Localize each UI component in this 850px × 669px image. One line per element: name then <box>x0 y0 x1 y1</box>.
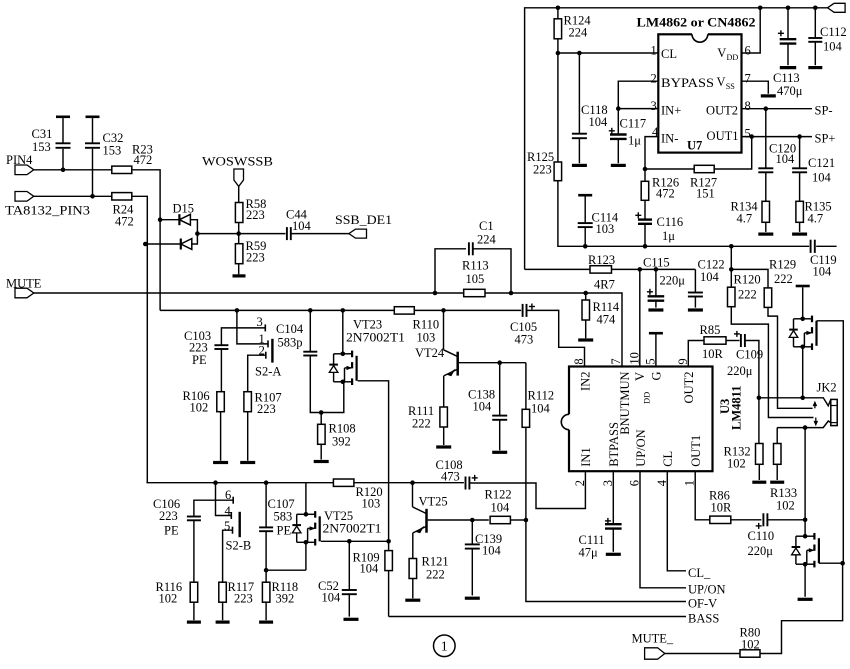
wire BASS line <box>389 616 686 618</box>
wire C106 to R116 <box>193 520 195 582</box>
svg-text:473: 473 <box>515 333 534 347</box>
svg-text:473: 473 <box>441 470 460 484</box>
bar above upper mosfet <box>796 285 810 288</box>
ground below R135 <box>792 233 807 236</box>
wire R120 to jack contact2 arrow <box>731 307 813 418</box>
capacitor C44 <box>286 231 293 236</box>
wire C118 stub <box>578 138 580 163</box>
wire R117 to ground <box>222 602 224 620</box>
wire R118 to ground <box>265 602 267 620</box>
wire R125 to bottom rail <box>558 181 837 247</box>
wire jack contact 2 <box>777 421 831 428</box>
svg-text:2: 2 <box>651 72 657 86</box>
capacitor C107 plates <box>259 526 273 528</box>
ground below C113 <box>780 66 796 69</box>
node C115 tap <box>654 267 659 272</box>
svg-text:R123: R123 <box>588 253 615 267</box>
wire R111 to ground <box>443 427 445 445</box>
wire R121 to ground <box>412 579 414 599</box>
node C110/mosfet <box>803 518 808 523</box>
node contact2/mosfet drain <box>803 425 808 430</box>
svg-text:104: 104 <box>473 400 493 414</box>
ground below R132 <box>752 481 766 484</box>
node PIN4/C31 junction <box>61 168 66 173</box>
wire D15b anode to common <box>192 234 198 244</box>
wire U3 pin10 VDD <box>639 269 641 366</box>
svg-text:104: 104 <box>776 152 796 166</box>
resistor R118 <box>262 582 270 602</box>
svg-text:3: 3 <box>651 99 657 113</box>
op-amp U7 body <box>658 33 741 153</box>
node S2-B pin4 tap <box>213 480 218 485</box>
wire R24 down to S2-B rail <box>132 196 148 482</box>
node contact1/mosfet source <box>800 396 805 401</box>
resistor R110 <box>394 307 414 314</box>
svg-text:153: 153 <box>103 144 122 158</box>
node D15a on R23 line <box>158 217 163 222</box>
resistor R126 <box>641 181 649 200</box>
wire lower mosfet source <box>804 564 806 597</box>
svg-text:6: 6 <box>225 488 231 502</box>
svg-text:OUT1: OUT1 <box>707 129 739 143</box>
capacitor C108 plus <box>472 477 478 479</box>
wire R129 to jack contact1 arrow <box>768 307 813 408</box>
capacitor C104 plates <box>303 351 317 353</box>
wire lower rail <box>146 482 464 484</box>
wire VT23 drain <box>342 310 344 353</box>
connector MUTE <box>15 288 34 298</box>
switch S2-A pin2 contact <box>265 352 267 359</box>
capacitor C32 top bar <box>86 116 100 119</box>
svg-text:C121: C121 <box>808 156 835 170</box>
wire R112 to OF-V line <box>526 427 686 601</box>
wire VT24 collector <box>443 310 445 349</box>
capacitor C32 plates <box>85 142 100 144</box>
capacitor C32 <box>92 118 94 196</box>
svg-text:MUTE_: MUTE_ <box>632 632 674 646</box>
transistor VT23 2N7002T1 <box>329 351 356 385</box>
svg-text:47μ: 47μ <box>579 546 599 560</box>
svg-text:BASS: BASS <box>688 612 719 626</box>
node C107/R118/VT25 source <box>264 568 269 573</box>
svg-text:10R: 10R <box>711 501 733 515</box>
svg-text:4R7: 4R7 <box>594 278 615 292</box>
node C52 tap <box>347 539 352 544</box>
svg-text:222: 222 <box>738 288 757 302</box>
capacitor C106 plates <box>187 516 201 518</box>
svg-text:102: 102 <box>776 499 795 513</box>
svg-text:DD: DD <box>642 392 652 404</box>
node R122/riser junction <box>524 518 529 523</box>
svg-text:SSB_DE1: SSB_DE1 <box>335 213 392 227</box>
svg-text:223: 223 <box>257 402 276 416</box>
wire R106 to ground <box>220 412 222 461</box>
wire C139 stub <box>471 549 473 596</box>
resistor R112 <box>522 409 530 427</box>
wire C115 top <box>655 269 657 296</box>
wire C120 to R134 <box>765 172 767 201</box>
resistor R23 <box>112 166 132 173</box>
wire D15a anode to common <box>190 220 197 234</box>
svg-text:222: 222 <box>774 272 793 286</box>
svg-text:104: 104 <box>322 591 342 605</box>
wire R120 top <box>730 246 732 287</box>
wire R135 to ground <box>799 222 801 232</box>
node R58/R59 divider <box>236 231 241 236</box>
ground below R118 <box>259 620 273 623</box>
wire C115 stub <box>655 301 657 308</box>
svg-text:220μ: 220μ <box>748 544 774 558</box>
resistor R135 <box>796 201 804 222</box>
svg-text:V: V <box>717 75 726 89</box>
node C114 on rail <box>583 244 588 249</box>
resistor R111 <box>440 407 448 427</box>
svg-text:153: 153 <box>32 140 51 154</box>
svg-text:R120: R120 <box>734 273 761 287</box>
svg-text:102: 102 <box>159 592 178 606</box>
svg-text:222: 222 <box>412 417 431 431</box>
svg-text:223: 223 <box>246 208 265 222</box>
wire C138 to ground <box>499 420 501 451</box>
svg-text:U7: U7 <box>687 139 702 153</box>
svg-text:C104: C104 <box>276 322 304 336</box>
connector WOSWSSB <box>234 169 244 186</box>
svg-text:8: 8 <box>745 99 751 113</box>
connector TA8132_PIN3 <box>15 192 34 202</box>
svg-text:4.7: 4.7 <box>737 211 753 225</box>
svg-text:BYPASS: BYPASS <box>661 76 714 90</box>
capacitor C116 <box>638 218 652 220</box>
svg-text:392: 392 <box>332 435 351 449</box>
svg-text:SS: SS <box>726 82 736 91</box>
wire S2-A pin2 to R107 <box>248 355 266 391</box>
wire C109 to contact1 <box>745 341 759 398</box>
resistor R116 <box>190 582 198 602</box>
ground below C138 <box>492 451 507 454</box>
wire MUTE to U3 pin7 <box>511 293 622 367</box>
resistor R125 <box>554 162 562 181</box>
resistor R114 <box>582 300 590 320</box>
wire R108 to ground <box>320 444 322 459</box>
ground below R106 <box>213 461 228 464</box>
transistor VT25 2N7002T1 <box>292 511 319 545</box>
wire R108 top <box>320 413 322 425</box>
svg-text:104: 104 <box>813 265 833 279</box>
svg-text:R110: R110 <box>413 318 440 332</box>
ground below C115 <box>648 308 663 311</box>
wire U7 pin7 VSS <box>742 81 769 94</box>
svg-text:104: 104 <box>700 270 720 284</box>
svg-text:223: 223 <box>246 251 265 265</box>
jack arrow down <box>815 418 817 422</box>
wire WOSWSSB to R58 <box>238 186 240 202</box>
svg-text:C112: C112 <box>820 25 847 39</box>
wire C122 stub <box>694 297 696 308</box>
page marker 1 <box>434 635 456 657</box>
jack arrow up <box>814 406 816 409</box>
resistor R106 <box>217 392 225 412</box>
svg-text:583: 583 <box>274 510 293 524</box>
resistor R80 <box>740 650 760 657</box>
svg-text:472: 472 <box>134 153 153 167</box>
capacitor C105 plus <box>529 306 535 308</box>
wire R85 to C109 <box>726 340 740 342</box>
wire C110 to mosfet <box>767 519 805 521</box>
svg-text:S2-B: S2-B <box>226 539 252 553</box>
node D15b on R24 line <box>143 242 148 247</box>
capacitor C109 <box>740 338 747 343</box>
wire R114 bottom <box>585 320 587 338</box>
node C1/R113 right <box>509 291 514 296</box>
resistor R113 <box>464 289 485 296</box>
capacitor C105 <box>521 308 528 313</box>
svg-text:105: 105 <box>466 272 485 286</box>
wire R132 to ground <box>758 464 760 480</box>
svg-text:R113: R113 <box>462 259 489 273</box>
ground below C117 <box>611 164 626 167</box>
wire U3 pin1 OUT1 <box>695 471 710 520</box>
bar above G pin <box>649 332 663 335</box>
svg-text:R129: R129 <box>769 258 796 272</box>
node C138 tap <box>497 360 502 365</box>
node OUT1/C121 <box>797 134 802 139</box>
jack JK2 body <box>831 399 837 425</box>
wire C138 top <box>499 363 501 416</box>
resistor R86 <box>710 516 731 523</box>
ground below C52 <box>344 618 359 621</box>
node R120/R129 tie <box>729 267 734 272</box>
wire MUTE_ to R80 <box>665 653 740 655</box>
wire VT23 gate to riser <box>358 381 389 617</box>
wire C120 top <box>765 109 767 169</box>
wire R58 to R59 <box>238 223 240 244</box>
svg-text:WOSWSSB: WOSWSSB <box>202 155 273 169</box>
wire upper mosfet gate <box>817 321 844 563</box>
node contact1/C109/R132 <box>757 396 762 401</box>
svg-text:LM4862 or CN4862: LM4862 or CN4862 <box>637 16 756 30</box>
wire R126 top <box>644 169 646 181</box>
capacitor C1 <box>468 246 475 251</box>
wire C113 stub <box>787 44 789 66</box>
svg-text:C1: C1 <box>479 219 494 233</box>
svg-text:CL: CL <box>661 451 675 467</box>
svg-text:UP/ON: UP/ON <box>634 429 648 467</box>
ground below VSS <box>761 94 776 97</box>
resistor R108 <box>318 424 326 444</box>
svg-text:1μ: 1μ <box>662 229 675 243</box>
svg-text:7: 7 <box>745 72 751 86</box>
wire U3 pin4 CL <box>667 471 686 571</box>
wire VDD top rail <box>525 8 828 270</box>
wire C114 top stub <box>584 196 586 223</box>
node R114 tap <box>583 291 588 296</box>
node C112 rail tap <box>813 6 818 11</box>
wire jack contact 1 <box>759 398 831 406</box>
node OUT2/C120 <box>764 106 769 111</box>
wire R124 to CL line <box>557 39 559 53</box>
wire VT25 drain <box>305 483 307 515</box>
capacitor C109 plus <box>734 333 740 335</box>
resistor R127 <box>694 165 714 172</box>
wire R59 to ground <box>238 264 240 275</box>
wire feedback <box>645 137 752 169</box>
node R124 top <box>556 6 561 11</box>
ground below R134 <box>758 233 773 236</box>
svg-text:103: 103 <box>596 222 615 236</box>
svg-text:PE: PE <box>192 353 207 367</box>
wire S2-B pin4 <box>216 483 232 516</box>
wire R23 to D15 node <box>132 170 160 311</box>
capacitor C52 plates <box>342 589 357 591</box>
svg-text:2N7002T1: 2N7002T1 <box>346 331 405 345</box>
wire to VT25 source <box>266 569 306 571</box>
node C116 on rail <box>643 244 648 249</box>
svg-text:C116: C116 <box>657 215 684 229</box>
transistor VT25 <box>413 507 427 533</box>
node OUT1/feedback <box>749 134 754 139</box>
resistor R134 <box>762 201 770 222</box>
wire R86 to C110 <box>731 519 762 521</box>
svg-text:IN+: IN+ <box>661 104 681 118</box>
resistor R59 <box>235 244 243 264</box>
svg-text:G: G <box>650 372 664 381</box>
wire to diode D15a <box>160 219 179 221</box>
wire VT25 gate line <box>321 540 389 542</box>
wire C112 stub <box>814 42 816 65</box>
svg-text:C117: C117 <box>620 117 647 131</box>
wire U3 pin6 UP/ON <box>640 471 686 588</box>
capacitor C138 plates <box>492 415 507 417</box>
node VT25 collector tap <box>410 480 415 485</box>
node C1/R113 left <box>433 291 438 296</box>
resistor R123 <box>590 266 612 273</box>
svg-text:151: 151 <box>696 187 715 201</box>
ground below R111 <box>436 445 451 448</box>
node C104 tap <box>308 308 313 313</box>
wire R118 top <box>265 570 267 582</box>
wire R125 top <box>557 53 559 162</box>
wire to diode D15b <box>145 243 181 245</box>
capacitor C103 plates <box>214 344 228 346</box>
svg-text:10R: 10R <box>702 347 724 361</box>
bar above C114 <box>578 194 592 197</box>
wire R133 to ground <box>776 464 778 480</box>
transistor VT24 <box>444 350 458 376</box>
wire C1 right leg <box>473 249 511 293</box>
capacitor C110 <box>762 517 769 522</box>
wire C116 stub <box>644 224 646 247</box>
svg-text:V: V <box>633 372 647 381</box>
resistor R122 <box>490 516 510 523</box>
svg-text:IN-: IN- <box>661 131 678 145</box>
wire S2-B pin5 to R117 <box>223 530 233 582</box>
connector SSB_DE1 <box>349 229 367 238</box>
switch S2-B pin5 contact <box>232 527 234 534</box>
svg-text:223: 223 <box>234 592 253 606</box>
wire C103 to S2-A pin3 <box>221 328 265 345</box>
svg-text:6: 6 <box>745 44 751 58</box>
svg-text:8: 8 <box>572 358 586 364</box>
resistor R24 <box>112 193 132 200</box>
svg-text:104: 104 <box>292 219 312 233</box>
svg-text:JK2: JK2 <box>817 381 837 395</box>
wire C52 top <box>348 541 350 590</box>
svg-text:104: 104 <box>482 544 502 558</box>
svg-text:3: 3 <box>257 315 263 329</box>
svg-text:VT24: VT24 <box>415 346 445 360</box>
wire C106 to S2-B pin6 <box>194 500 233 516</box>
diode D15a <box>178 214 180 225</box>
svg-text:R122: R122 <box>485 488 512 502</box>
capacitor C111 <box>605 523 622 525</box>
capacitor C119 <box>809 244 816 249</box>
wire C112 top <box>814 8 816 38</box>
svg-text:472: 472 <box>115 215 134 229</box>
svg-text:104: 104 <box>589 115 609 129</box>
ground below R114 <box>578 338 593 341</box>
svg-text:PE: PE <box>164 524 179 538</box>
capacitor C31 <box>62 118 64 170</box>
wire IN+ line <box>618 108 658 110</box>
wire C111 stub <box>612 529 614 552</box>
wire R123 line <box>525 268 696 270</box>
node gates/R80 junction <box>840 561 845 566</box>
svg-text:UP/ON: UP/ON <box>688 583 726 597</box>
wire VT25 collector <box>412 483 414 507</box>
svg-text:470μ: 470μ <box>777 84 803 98</box>
capacitor C117 <box>610 133 627 135</box>
switch S2-A pin3 contact <box>264 324 266 331</box>
node S2-A pin1 tap <box>235 308 240 313</box>
ground below R117 <box>216 620 230 623</box>
svg-text:102: 102 <box>727 457 746 471</box>
svg-text:PE: PE <box>277 524 292 538</box>
node U3 VDD tap <box>638 267 643 272</box>
resistor R117 <box>219 582 227 602</box>
svg-text:SP-: SP- <box>815 104 833 118</box>
wire lower mosfet drain <box>804 428 806 537</box>
wire D15 common to C44 <box>197 233 285 235</box>
svg-text:C31: C31 <box>32 127 53 141</box>
wire U3 pin2 BYPASS <box>618 81 658 108</box>
svg-text:V: V <box>717 46 726 60</box>
ground below C139 <box>465 597 480 600</box>
ground below lower mosfet <box>798 598 813 601</box>
svg-text:R108: R108 <box>329 422 356 436</box>
node VT23 drain tap <box>341 308 346 313</box>
connector VDD flag <box>828 3 846 12</box>
capacitor C108 <box>464 481 471 486</box>
svg-text:104: 104 <box>531 402 551 416</box>
resistor R120 (222) <box>728 287 736 307</box>
node R108 tap <box>319 410 324 415</box>
wire C107 top <box>265 483 267 528</box>
wire C118 top <box>578 53 580 134</box>
connector MUTE_ <box>645 648 665 659</box>
node D15 common <box>195 231 200 236</box>
svg-text:4.7: 4.7 <box>808 211 824 225</box>
wire PIN4 to R23 <box>34 169 113 171</box>
wire C121 top <box>799 137 801 169</box>
node IN-/R126/R127 <box>643 167 648 172</box>
wire VT25 source down <box>305 542 307 570</box>
svg-text:472: 472 <box>656 187 675 201</box>
svg-text:BTPASS: BTPASS <box>607 422 621 467</box>
wire C114 bottom <box>584 227 586 246</box>
wire TA8132_PIN3 to R24 <box>34 195 113 197</box>
wire upper mosfet source <box>802 347 804 398</box>
wire U7 pin4 IN- <box>645 137 658 169</box>
